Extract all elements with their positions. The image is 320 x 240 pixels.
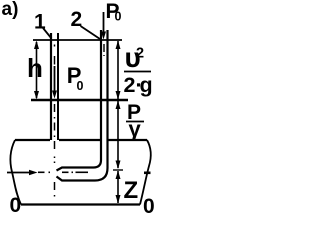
svg-text:γ: γ	[129, 117, 142, 142]
svg-text:0: 0	[115, 10, 122, 24]
svg-text:0: 0	[77, 79, 84, 93]
svg-text:а): а)	[2, 0, 19, 20]
svg-text:0: 0	[10, 194, 22, 215]
svg-text:1: 1	[34, 11, 46, 34]
svg-text:h: h	[27, 53, 43, 83]
svg-text:2·g: 2·g	[124, 73, 153, 97]
svg-text:Z: Z	[124, 177, 139, 204]
svg-text:2: 2	[136, 46, 144, 62]
svg-text:2: 2	[71, 8, 83, 31]
svg-text:0: 0	[143, 195, 155, 215]
